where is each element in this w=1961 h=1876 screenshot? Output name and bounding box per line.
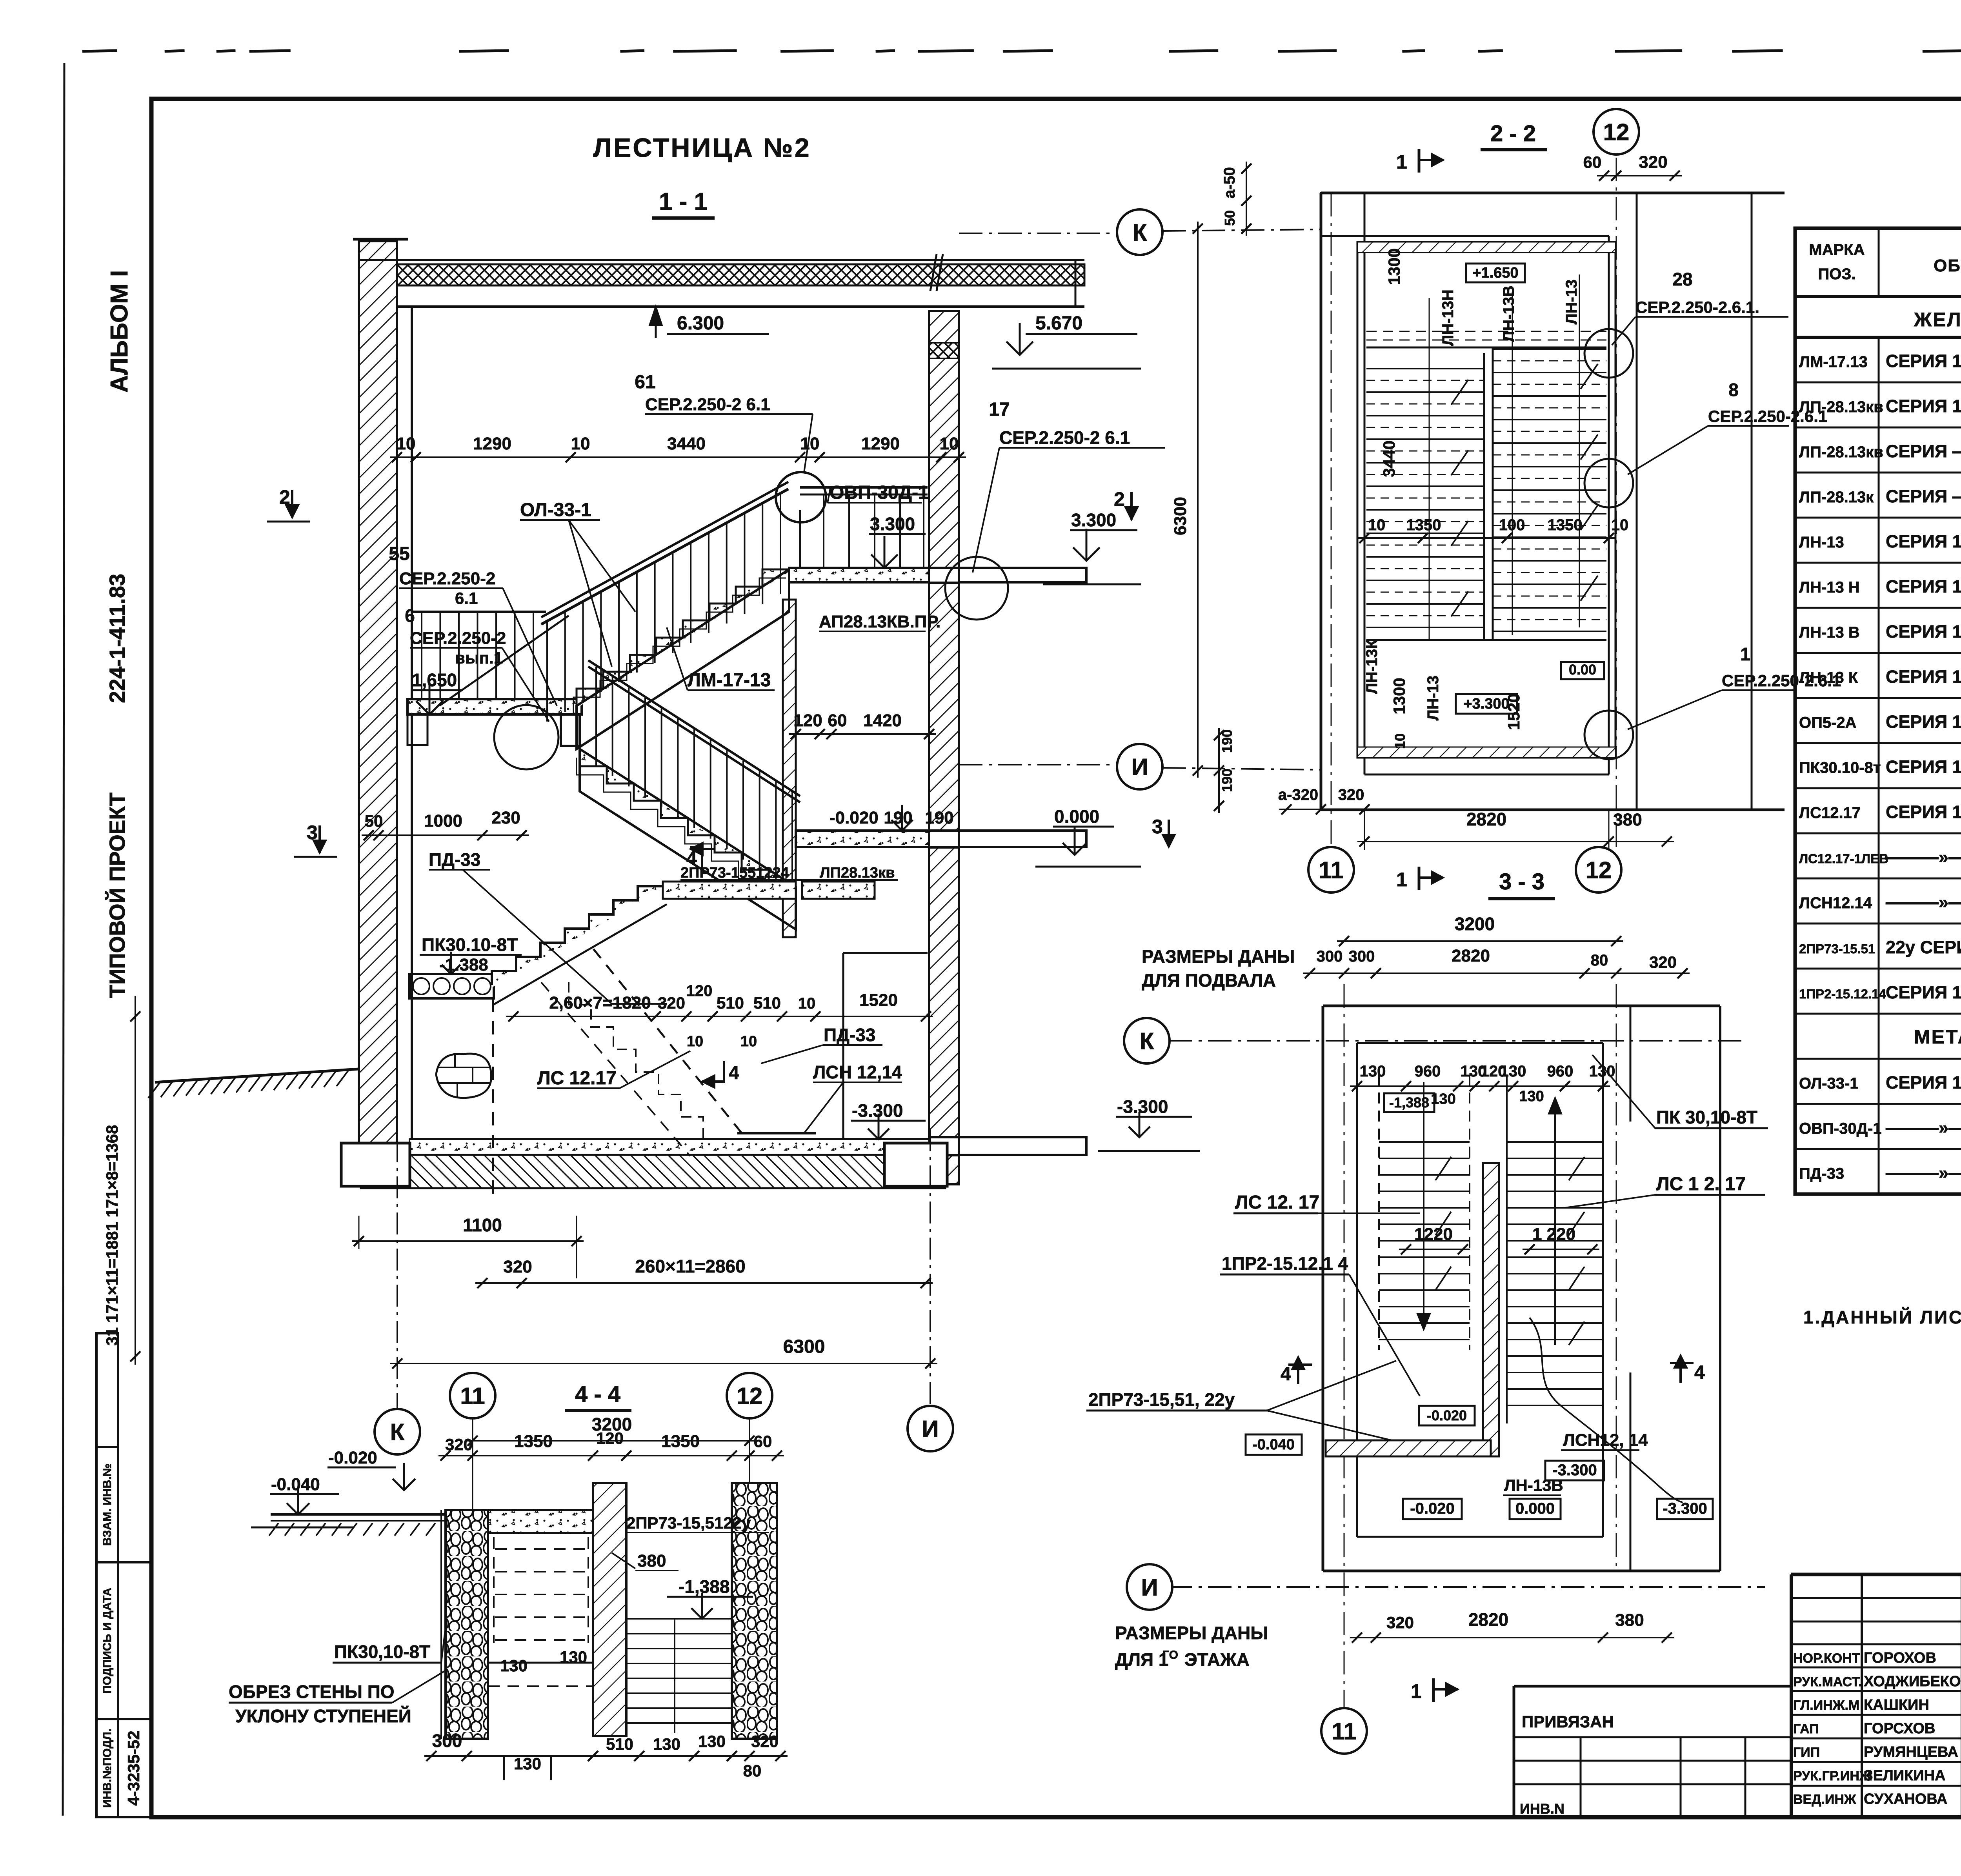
svg-text:СЕР.2.250-2: СЕР.2.250-2	[410, 629, 506, 648]
svg-text:ПРИВЯЗАН: ПРИВЯЗАН	[1522, 1712, 1614, 1731]
svg-text:6.300: 6.300	[677, 313, 724, 334]
svg-text:1 220: 1 220	[1532, 1225, 1575, 1244]
svg-text:ИНВ.N: ИНВ.N	[1520, 1801, 1564, 1817]
svg-text:300: 300	[1317, 948, 1343, 965]
svg-text:2 - 2: 2 - 2	[1490, 121, 1536, 146]
svg-text:60: 60	[828, 711, 847, 730]
svg-text:2820: 2820	[1452, 946, 1490, 965]
svg-text:130: 130	[653, 1735, 680, 1753]
svg-text:-3.300: -3.300	[852, 1100, 903, 1121]
svg-text:вып.1: вып.1	[455, 649, 503, 667]
svg-text:-1,388: -1,388	[679, 1576, 729, 1597]
svg-text:510: 510	[753, 994, 781, 1012]
svg-text:-0.020: -0.020	[1427, 1407, 1467, 1423]
svg-text:12: 12	[1603, 119, 1630, 145]
svg-text:6300: 6300	[783, 1336, 825, 1357]
svg-text:ПК30,10-8Т: ПК30,10-8Т	[334, 1641, 430, 1662]
svg-text:КАШКИН: КАШКИН	[1864, 1697, 1929, 1713]
svg-text:130: 130	[560, 1648, 587, 1666]
svg-text:10: 10	[798, 995, 816, 1012]
svg-text:ИНВ.№ПОДЛ.: ИНВ.№ПОДЛ.	[101, 1729, 114, 1808]
svg-text:1350: 1350	[661, 1432, 700, 1451]
svg-text:СЕРИЯ 1.055.1-1: СЕРИЯ 1.055.1-1	[1886, 802, 1961, 822]
svg-text:960: 960	[1547, 1063, 1574, 1080]
svg-text:ЛП-28.13к: ЛП-28.13к	[1799, 489, 1874, 506]
svg-text:ЛН-13 В: ЛН-13 В	[1799, 624, 1860, 641]
svg-text:СЕР.2.250-2.6.1: СЕР.2.250-2.6.1	[1722, 671, 1841, 690]
svg-text:ОП5-2А: ОП5-2А	[1799, 714, 1857, 731]
svg-text:МЕТАЛЛИЧЕСКИЕ: МЕТАЛЛИЧЕСКИЕ	[1914, 1026, 1961, 1048]
svg-text:2,60×7=1820: 2,60×7=1820	[549, 993, 651, 1013]
svg-text:4: 4	[729, 1063, 739, 1083]
svg-text:260×11=2860: 260×11=2860	[635, 1256, 745, 1276]
svg-text:3.300: 3.300	[1071, 510, 1116, 530]
svg-text:2820: 2820	[1468, 1609, 1508, 1630]
svg-text:130: 130	[1500, 1063, 1526, 1080]
svg-text:СЕРИЯ 1.225-2 В.5: СЕРИЯ 1.225-2 В.5	[1886, 712, 1961, 732]
svg-text:1000: 1000	[424, 811, 462, 831]
svg-text:1520: 1520	[1504, 693, 1523, 730]
svg-text:ЛН-13В: ЛН-13В	[1504, 1476, 1563, 1494]
svg-text:ХОДЖИБЕКОВ: ХОДЖИБЕКОВ	[1864, 1673, 1961, 1690]
svg-text:55: 55	[389, 544, 409, 564]
svg-text:6300: 6300	[1171, 497, 1190, 535]
svg-text:1: 1	[1396, 151, 1407, 173]
svg-text:ЛН-13 Н: ЛН-13 Н	[1799, 579, 1860, 596]
svg-text:100: 100	[1499, 516, 1525, 534]
svg-text:120: 120	[596, 1429, 624, 1447]
svg-text:-0.020: -0.020	[830, 808, 879, 827]
svg-text:ЛМ-17.13: ЛМ-17.13	[1799, 353, 1868, 371]
svg-text:-3.300: -3.300	[1663, 1500, 1707, 1517]
svg-text:+1.650: +1.650	[1472, 265, 1518, 281]
svg-text:СЕРИЯ 1.251-3 В.1: СЕРИЯ 1.251-3 В.1	[1886, 667, 1961, 687]
svg-text:ЛН-13: ЛН-13	[1563, 280, 1580, 325]
svg-text:6: 6	[405, 605, 415, 626]
svg-text:ПД-33: ПД-33	[1799, 1165, 1844, 1182]
svg-text:2ПР73-15.51: 2ПР73-15.51	[1799, 942, 1875, 956]
svg-text:4: 4	[1281, 1364, 1291, 1385]
svg-text:ЛС 12. 17: ЛС 12. 17	[1235, 1192, 1319, 1213]
svg-text:ГАП: ГАП	[1793, 1721, 1819, 1736]
svg-text:ВЗАМ. ИНВ.№: ВЗАМ. ИНВ.№	[101, 1463, 114, 1546]
svg-text:-3.300: -3.300	[1117, 1096, 1168, 1117]
svg-text:60: 60	[754, 1432, 772, 1451]
svg-text:31 171×11=1881 171×8=1368: 31 171×11=1881 171×8=1368	[103, 1125, 121, 1346]
svg-text:ЗЕЛИКИНА: ЗЕЛИКИНА	[1864, 1767, 1946, 1784]
svg-text:300: 300	[1349, 948, 1375, 965]
svg-text:ЛС12.17-1ЛЕВ: ЛС12.17-1ЛЕВ	[1799, 851, 1888, 866]
svg-text:ЛЕСТНИЦА №2: ЛЕСТНИЦА №2	[593, 133, 811, 163]
svg-text:СЕРИЯ 1.251-3 В.1: СЕРИЯ 1.251-3 В.1	[1886, 576, 1961, 596]
svg-text:ПД-33: ПД-33	[429, 849, 480, 870]
svg-text:120: 120	[793, 711, 822, 730]
svg-text:ПК30.10-8т: ПК30.10-8т	[1799, 759, 1881, 776]
svg-text:-0.020: -0.020	[328, 1448, 377, 1467]
svg-text:130: 130	[1519, 1088, 1544, 1105]
svg-text:СЕРИЯ 1.138-10. В.1: СЕРИЯ 1.138-10. В.1	[1886, 982, 1961, 1002]
svg-text:4: 4	[1694, 1362, 1705, 1383]
svg-text:СЕРИЯ 1.141-1 6.60: СЕРИЯ 1.141-1 6.60	[1886, 757, 1961, 777]
svg-text:1 - 1: 1 - 1	[659, 188, 708, 215]
svg-text:ПК30.10-8Т: ПК30.10-8Т	[422, 934, 518, 955]
svg-text:И: И	[922, 1416, 939, 1442]
svg-text:10: 10	[1392, 733, 1408, 749]
svg-text:0.00: 0.00	[1569, 662, 1596, 678]
svg-text:-1.388: -1.388	[439, 955, 488, 974]
svg-text:-0.040: -0.040	[271, 1475, 320, 1494]
svg-text:АЛЬБОМ I: АЛЬБОМ I	[106, 270, 133, 393]
svg-text:60: 60	[1583, 153, 1602, 171]
svg-text:ГИП: ГИП	[1793, 1745, 1820, 1760]
svg-text:11: 11	[460, 1383, 485, 1409]
svg-text:10: 10	[1368, 516, 1386, 534]
svg-text:СЕРИЯ 1.256-1: СЕРИЯ 1.256-1	[1886, 1073, 1961, 1093]
svg-text:8: 8	[1728, 380, 1739, 400]
svg-text:80: 80	[743, 1761, 762, 1780]
svg-text:-0.040: -0.040	[1252, 1436, 1295, 1453]
svg-text:12: 12	[737, 1383, 763, 1409]
svg-text:ЛП28.13кв: ЛП28.13кв	[820, 865, 895, 881]
svg-text:ЖЕЛЕЗОБЕТОННЫЕ: ЖЕЛЕЗОБЕТОННЫЕ	[1914, 309, 1961, 331]
svg-text:ЭТАЖА: ЭТАЖА	[1184, 1649, 1250, 1670]
svg-text:0.000: 0.000	[1515, 1500, 1555, 1517]
svg-text:а-50: а-50	[1221, 167, 1238, 198]
svg-text:1420: 1420	[863, 711, 902, 730]
svg-text:10: 10	[397, 434, 416, 453]
svg-text:320: 320	[1649, 953, 1677, 971]
svg-text:120: 120	[686, 982, 713, 1000]
svg-text:50: 50	[1222, 210, 1238, 226]
svg-text:10: 10	[687, 1033, 703, 1050]
svg-text:+3.300: +3.300	[1463, 696, 1509, 712]
svg-text:1350: 1350	[1548, 516, 1583, 534]
svg-text:230: 230	[491, 808, 520, 827]
svg-text:ГО: ГО	[1162, 1649, 1178, 1661]
svg-text:СЕРИЯ 1.251-3 В.1: СЕРИЯ 1.251-3 В.1	[1886, 351, 1961, 371]
svg-text:50: 50	[365, 812, 383, 830]
svg-text:а-320: а-320	[1278, 786, 1318, 803]
svg-text:22у СЕРИЯ 1.138-10 6.2: 22у СЕРИЯ 1.138-10 6.2	[1886, 937, 1961, 957]
svg-text:1350: 1350	[1406, 516, 1441, 534]
svg-text:ПК 30,10-8Т: ПК 30,10-8Т	[1656, 1107, 1757, 1127]
svg-text:ЛСН12, 14: ЛСН12, 14	[1563, 1431, 1648, 1450]
svg-text:-0.020: -0.020	[1410, 1500, 1454, 1517]
svg-text:ЛСН12.14: ЛСН12.14	[1799, 894, 1872, 912]
svg-text:320: 320	[1639, 153, 1667, 172]
svg-text:РАЗМЕРЫ ДАНЫ: РАЗМЕРЫ ДАНЫ	[1142, 946, 1295, 967]
svg-text:СЕР.2.250-2 6.1: СЕР.2.250-2 6.1	[645, 395, 770, 414]
svg-text:10: 10	[571, 434, 590, 453]
svg-text:510: 510	[606, 1735, 633, 1753]
svg-text:960: 960	[1415, 1063, 1441, 1080]
svg-text:СЕРИЯ 1.251-3 В.1: СЕРИЯ 1.251-3 В.1	[1886, 531, 1961, 551]
svg-text:1: 1	[1396, 869, 1407, 891]
svg-text:ЛС 1 2. 17: ЛС 1 2. 17	[1656, 1174, 1746, 1194]
svg-text:И: И	[1141, 1574, 1158, 1601]
svg-text:10: 10	[740, 1033, 757, 1050]
svg-text:10: 10	[940, 434, 959, 453]
svg-text:1100: 1100	[463, 1215, 502, 1235]
svg-text:2ПР73-15,5122у: 2ПР73-15,5122у	[626, 1514, 751, 1532]
svg-text:ОЛ-33-1: ОЛ-33-1	[1799, 1075, 1859, 1092]
svg-text:СЕР.2.250-2.6.1.: СЕР.2.250-2.6.1.	[1635, 298, 1759, 316]
svg-text:2ПР73-15,51, 22у: 2ПР73-15,51, 22у	[1088, 1389, 1235, 1410]
svg-text:СУХАНОВА: СУХАНОВА	[1864, 1791, 1947, 1807]
svg-text:ЛСН 12,14: ЛСН 12,14	[813, 1062, 902, 1082]
svg-text:1290: 1290	[473, 434, 511, 453]
svg-text:ПД-33: ПД-33	[824, 1025, 875, 1045]
svg-text:СЕРИЯ ———»———: СЕРИЯ ———»———	[1886, 486, 1961, 506]
svg-text:3200: 3200	[1455, 914, 1495, 934]
svg-text:130: 130	[698, 1732, 726, 1751]
svg-text:СЕР.2.250-2.6.1: СЕР.2.250-2.6.1	[1708, 407, 1827, 425]
svg-text:РАЗМЕРЫ ДАНЫ: РАЗМЕРЫ ДАНЫ	[1115, 1623, 1268, 1643]
svg-text:ВЕД.ИНЖ: ВЕД.ИНЖ	[1793, 1792, 1856, 1807]
svg-text:ОЛ-33-1: ОЛ-33-1	[520, 500, 591, 520]
svg-text:К: К	[1133, 220, 1147, 246]
svg-text:РУМЯНЦЕВА: РУМЯНЦЕВА	[1864, 1744, 1958, 1760]
svg-text:1220: 1220	[1414, 1225, 1453, 1244]
svg-text:ЛС 12.17: ЛС 12.17	[537, 1068, 617, 1089]
svg-text:РУК.МАСТ.: РУК.МАСТ.	[1793, 1674, 1862, 1689]
svg-text:1350: 1350	[514, 1432, 553, 1451]
svg-text:10: 10	[1611, 516, 1629, 534]
svg-text:К: К	[390, 1419, 405, 1445]
svg-text:ОБОЗНАЧЕНИЕ: ОБОЗНАЧЕНИЕ	[1934, 256, 1961, 275]
svg-text:3: 3	[1152, 816, 1163, 838]
svg-text:130: 130	[514, 1754, 541, 1773]
svg-text:5.670: 5.670	[1035, 313, 1082, 334]
svg-text:ЛН-13В: ЛН-13В	[1500, 285, 1517, 342]
svg-text:320: 320	[751, 1732, 779, 1751]
svg-text:320: 320	[1386, 1613, 1414, 1632]
svg-text:6.1: 6.1	[455, 589, 478, 607]
svg-text:УКЛОНУ СТУПЕНЕЙ: УКЛОНУ СТУПЕНЕЙ	[235, 1706, 411, 1726]
svg-text:ДЛЯ ПОДВАЛА: ДЛЯ ПОДВАЛА	[1142, 970, 1276, 991]
svg-text:0.000: 0.000	[1054, 806, 1099, 827]
svg-text:НОР.КОНТ: НОР.КОНТ	[1793, 1651, 1860, 1666]
svg-text:12: 12	[1586, 857, 1612, 883]
svg-text:ЛН-13: ЛН-13	[1424, 676, 1442, 721]
svg-text:1,650: 1,650	[412, 670, 457, 690]
svg-text:ЛН-13К: ЛН-13К	[1363, 639, 1381, 694]
svg-text:СЕРИЯ ———»———: СЕРИЯ ———»———	[1886, 441, 1961, 461]
svg-text:3 - 3: 3 - 3	[1499, 869, 1544, 894]
svg-text:СЕР.2.250-2 6.1: СЕР.2.250-2 6.1	[999, 427, 1130, 448]
svg-text:1: 1	[1411, 1680, 1422, 1702]
svg-text:1520: 1520	[859, 991, 898, 1010]
svg-text:190: 190	[925, 808, 953, 827]
svg-text:ТИПОВОЙ ПРОЕКТ: ТИПОВОЙ ПРОЕКТ	[105, 793, 129, 998]
svg-text:ОБРЕЗ СТЕНЫ ПО: ОБРЕЗ СТЕНЫ ПО	[229, 1681, 395, 1702]
svg-text:К: К	[1140, 1028, 1154, 1054]
svg-text:ЛП-28.13кв: ЛП-28.13кв	[1799, 444, 1883, 461]
svg-text:ОВП-30Д-1: ОВП-30Д-1	[830, 482, 929, 503]
svg-text:130: 130	[500, 1656, 528, 1675]
svg-text:———»———: ———»———	[1886, 1163, 1961, 1183]
svg-text:ЛС12.17: ЛС12.17	[1799, 804, 1861, 822]
svg-text:3440: 3440	[1380, 440, 1398, 477]
svg-text:ГЛ.ИНЖ.М: ГЛ.ИНЖ.М	[1793, 1698, 1859, 1713]
svg-text:380: 380	[1613, 810, 1642, 829]
svg-text:17: 17	[989, 399, 1010, 420]
svg-text:ЛН-13: ЛН-13	[1799, 534, 1844, 551]
svg-text:СЕРИЯ 1.252-3 В.1: СЕРИЯ 1.252-3 В.1	[1886, 396, 1961, 416]
svg-text:1.ДАННЫЙ ЛИСТ СМОТРЕТЬ СОВМ: 1.ДАННЫЙ ЛИСТ СМОТРЕТЬ СОВМЕСТНО С ЛИСТА…	[1803, 1307, 1961, 1327]
svg-text:1300: 1300	[1390, 678, 1408, 714]
svg-text:ПОДПИСЬ И ДАТА: ПОДПИСЬ И ДАТА	[101, 1588, 114, 1694]
svg-text:1300: 1300	[1385, 248, 1403, 285]
svg-text:РУК.ГР.ИНЖ: РУК.ГР.ИНЖ	[1793, 1769, 1872, 1783]
svg-text:11: 11	[1332, 1718, 1356, 1745]
svg-text:1290: 1290	[861, 434, 900, 453]
svg-text:МАРКА: МАРКА	[1809, 241, 1865, 258]
svg-text:И: И	[1131, 754, 1148, 780]
svg-text:320: 320	[658, 994, 685, 1012]
svg-text:2: 2	[1114, 488, 1125, 510]
svg-text:АП28.13КВ.ПР.: АП28.13КВ.ПР.	[819, 612, 940, 631]
svg-text:———»———: ———»———	[1886, 892, 1961, 912]
svg-text:11: 11	[1319, 857, 1343, 883]
svg-text:380: 380	[637, 1551, 666, 1571]
svg-text:4 - 4: 4 - 4	[575, 1382, 620, 1407]
svg-text:320: 320	[1338, 786, 1364, 803]
svg-text:ДЛЯ 1: ДЛЯ 1	[1115, 1649, 1168, 1670]
svg-text:4-3235-52: 4-3235-52	[124, 1731, 143, 1805]
svg-text:ГОРОХОВ: ГОРОХОВ	[1864, 1650, 1936, 1666]
svg-text:2820: 2820	[1466, 809, 1506, 829]
svg-text:ПОЗ.: ПОЗ.	[1818, 265, 1855, 283]
svg-text:380: 380	[1615, 1611, 1644, 1630]
svg-text:ЛМ-17-13: ЛМ-17-13	[688, 670, 771, 691]
svg-text:320: 320	[503, 1257, 532, 1276]
svg-text:ОВП-30Д-1: ОВП-30Д-1	[1799, 1120, 1882, 1137]
svg-text:80: 80	[1591, 952, 1608, 969]
svg-text:1: 1	[1740, 644, 1750, 664]
svg-text:61: 61	[635, 372, 655, 393]
svg-text:ГОРСХОВ: ГОРСХОВ	[1864, 1720, 1935, 1737]
svg-text:28: 28	[1672, 269, 1692, 289]
svg-text:510: 510	[717, 994, 744, 1012]
svg-text:———»———: ———»———	[1886, 1118, 1961, 1138]
svg-text:———»———: ———»———	[1886, 847, 1961, 867]
svg-text:130: 130	[1360, 1063, 1386, 1080]
svg-text:1ПР2-15.12.1 4: 1ПР2-15.12.1 4	[1222, 1253, 1348, 1274]
svg-text:СЕРИЯ 1.251-3 В.1: СЕРИЯ 1.251-3 В.1	[1886, 622, 1961, 642]
svg-text:СЕР.2.250-2: СЕР.2.250-2	[399, 569, 495, 588]
svg-text:ЛН-13Н: ЛН-13Н	[1439, 289, 1457, 346]
svg-text:3.300: 3.300	[870, 514, 915, 534]
svg-text:300: 300	[432, 1731, 462, 1751]
svg-text:1ПР2-15.12.14: 1ПР2-15.12.14	[1799, 987, 1886, 1001]
svg-text:190: 190	[1219, 769, 1235, 792]
svg-text:3440: 3440	[667, 434, 706, 453]
svg-text:224-1-411.83: 224-1-411.83	[105, 574, 129, 703]
